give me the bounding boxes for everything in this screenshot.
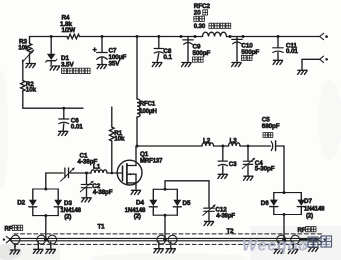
svg-text:T1: T1 (98, 223, 106, 230)
svg-text:500pF: 500pF (241, 49, 259, 56)
svg-text:0.01: 0.01 (286, 48, 298, 55)
svg-text:680pF: 680pF (262, 123, 280, 130)
svg-text:+: + (93, 47, 97, 54)
svg-text:(2): (2) (134, 214, 141, 220)
svg-text:4-38pF: 4-38pF (216, 213, 235, 219)
svg-text:RF: RF (298, 228, 306, 234)
svg-text:0.1: 0.1 (163, 54, 172, 61)
svg-text:MRF137: MRF137 (140, 158, 163, 164)
svg-text:RFC1: RFC1 (140, 102, 156, 108)
svg-text:0.30: 0.30 (194, 24, 206, 30)
svg-text:D4: D4 (136, 200, 144, 207)
svg-text:RF: RF (5, 226, 13, 232)
svg-text:0.01: 0.01 (71, 123, 83, 130)
svg-text:4-38pF: 4-38pF (93, 189, 113, 196)
svg-text:L2: L2 (203, 138, 211, 145)
svg-text:Q1: Q1 (140, 151, 149, 158)
svg-text:L1: L1 (93, 163, 101, 170)
svg-text:1/2W: 1/2W (62, 28, 76, 34)
svg-text:100μH: 100μH (139, 109, 157, 115)
svg-text:5-30pF: 5-30pF (255, 166, 275, 173)
svg-text:D2: D2 (17, 199, 25, 206)
svg-text:L3: L3 (230, 138, 238, 145)
svg-text:10k: 10k (114, 136, 125, 143)
svg-text:.c: .c (299, 241, 308, 253)
svg-text:D3: D3 (64, 200, 72, 207)
svg-text:3.5V: 3.5V (61, 62, 74, 69)
svg-text:500pF: 500pF (193, 50, 211, 57)
svg-text:1.8k: 1.8k (60, 21, 72, 28)
svg-text:D5: D5 (183, 200, 191, 207)
svg-text:10k: 10k (18, 45, 29, 52)
svg-text:10k: 10k (26, 87, 37, 94)
svg-text:1N4148: 1N4148 (60, 208, 81, 214)
svg-text:(2): (2) (64, 215, 71, 221)
svg-text:35V: 35V (109, 60, 121, 67)
svg-text:1N4148: 1N4148 (304, 206, 325, 212)
svg-text:D6: D6 (261, 200, 269, 207)
svg-text:D7: D7 (304, 198, 312, 205)
svg-text:C12: C12 (215, 206, 227, 213)
svg-text:C3: C3 (229, 161, 237, 168)
svg-text:T2: T2 (227, 228, 235, 235)
svg-text:1N4148: 1N4148 (125, 208, 146, 214)
svg-text:20: 20 (194, 10, 201, 17)
svg-text:(2): (2) (306, 214, 313, 220)
